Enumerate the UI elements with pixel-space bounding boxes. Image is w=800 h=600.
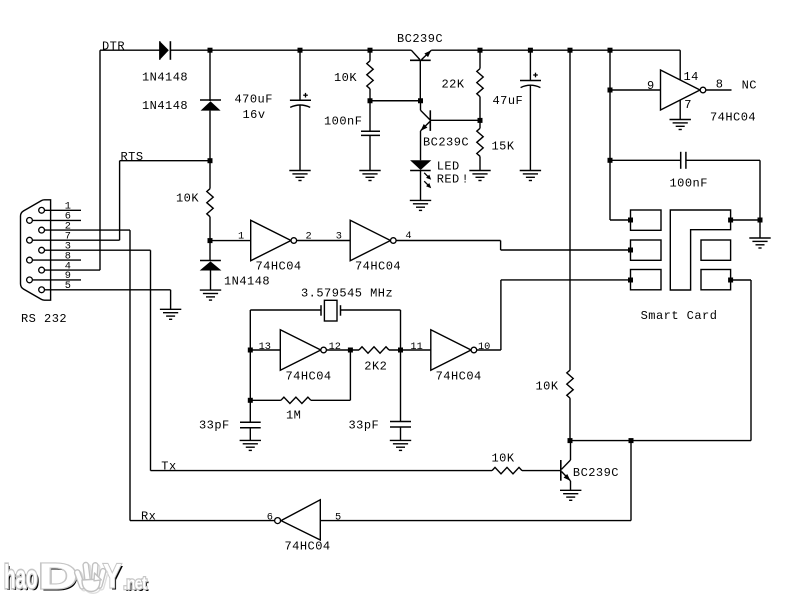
svg-text:3: 3 bbox=[336, 230, 342, 242]
svg-text:NC: NC bbox=[742, 79, 757, 93]
svg-text:11: 11 bbox=[410, 341, 422, 353]
svg-text:47uF: 47uF bbox=[493, 94, 524, 108]
svg-text:470uF: 470uF bbox=[235, 93, 273, 107]
svg-text:74HC04: 74HC04 bbox=[285, 540, 331, 554]
svg-text:BC239C: BC239C bbox=[423, 136, 469, 150]
svg-text:100nF: 100nF bbox=[670, 177, 708, 191]
svg-text:12: 12 bbox=[329, 341, 341, 353]
svg-text:10K: 10K bbox=[536, 380, 559, 394]
svg-text:33pF: 33pF bbox=[199, 418, 230, 432]
svg-text:10K: 10K bbox=[492, 452, 515, 466]
svg-text:LED: LED bbox=[437, 159, 460, 173]
svg-text:1N4148: 1N4148 bbox=[142, 99, 188, 113]
svg-text:RTS: RTS bbox=[121, 150, 144, 164]
svg-text:10K: 10K bbox=[176, 192, 199, 206]
svg-text:100nF: 100nF bbox=[324, 115, 362, 129]
svg-text:Y: Y bbox=[103, 557, 122, 595]
svg-text:22K: 22K bbox=[442, 78, 465, 92]
svg-text:DTR: DTR bbox=[102, 39, 125, 53]
svg-text:RS 232: RS 232 bbox=[21, 312, 67, 326]
svg-text:7: 7 bbox=[684, 98, 692, 112]
svg-text:hao: hao bbox=[4, 559, 38, 596]
svg-text:74HC04: 74HC04 bbox=[355, 259, 401, 273]
svg-text:15K: 15K bbox=[492, 140, 515, 154]
svg-text:14: 14 bbox=[684, 70, 699, 84]
svg-text:5: 5 bbox=[335, 512, 341, 524]
svg-text:10K: 10K bbox=[334, 71, 357, 85]
svg-text:9: 9 bbox=[647, 79, 655, 93]
svg-text:Tx: Tx bbox=[161, 460, 176, 474]
svg-text:RED: RED bbox=[437, 173, 460, 187]
svg-text:2: 2 bbox=[306, 231, 312, 243]
svg-text:5: 5 bbox=[65, 280, 71, 292]
svg-text:74HC04: 74HC04 bbox=[256, 259, 302, 273]
svg-text:BC239C: BC239C bbox=[573, 466, 619, 480]
svg-text:.net: .net bbox=[123, 574, 147, 593]
svg-text:16v: 16v bbox=[243, 108, 266, 122]
svg-text:2K2: 2K2 bbox=[364, 360, 387, 374]
svg-text:4: 4 bbox=[405, 230, 411, 242]
svg-text:74HC04: 74HC04 bbox=[286, 370, 332, 384]
svg-text:74HC04: 74HC04 bbox=[436, 370, 482, 384]
svg-text:13: 13 bbox=[259, 341, 271, 353]
svg-text:1N4148: 1N4148 bbox=[224, 274, 270, 288]
svg-text:10: 10 bbox=[478, 341, 490, 353]
svg-text:D: D bbox=[38, 556, 78, 596]
svg-text:6: 6 bbox=[267, 512, 273, 524]
svg-text:8: 8 bbox=[716, 78, 724, 92]
svg-text:33pF: 33pF bbox=[349, 418, 380, 432]
svg-text:Smart Card: Smart Card bbox=[641, 309, 718, 323]
svg-text:1N4148: 1N4148 bbox=[142, 71, 188, 85]
svg-text:3.579545 MHz: 3.579545 MHz bbox=[301, 286, 393, 300]
svg-text:BC239C: BC239C bbox=[397, 32, 443, 46]
svg-text:1: 1 bbox=[238, 231, 244, 243]
svg-text:!: ! bbox=[462, 173, 470, 187]
svg-text:1M: 1M bbox=[286, 409, 301, 423]
svg-text:74HC04: 74HC04 bbox=[710, 111, 756, 125]
